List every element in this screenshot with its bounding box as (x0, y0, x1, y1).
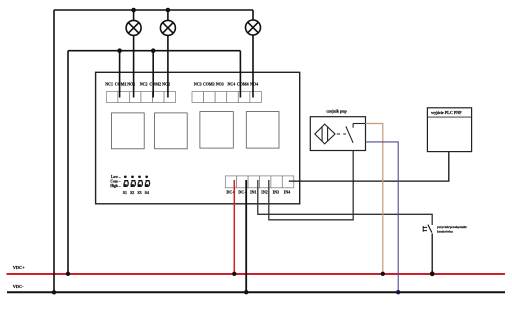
wire lamp3 upper lead (252, 10, 254, 20)
svg-text:COM4: COM4 (237, 82, 249, 87)
node junction pushbutton on VDC+ rail (430, 271, 435, 276)
svg-text:VDC-: VDC- (13, 284, 25, 289)
relay module U1 outline (96, 72, 300, 204)
sensor switch contact (346, 126, 353, 142)
wire lamp1 upper lead (133, 10, 135, 20)
wire sensor blue - to VDC- rail (366, 142, 399, 292)
svg-text:NC1: NC1 (105, 82, 113, 87)
selector switch S3 (138, 175, 143, 187)
wire lamp2 lead to NO2 (167, 35, 169, 97)
selector switch S2 (131, 175, 136, 187)
svg-text:Low –: Low – (111, 175, 121, 179)
wire COM1 drop (119, 51, 121, 98)
label S1 S2 S3 S4 (123, 190, 149, 195)
pushbutton S5 actuator (423, 226, 427, 232)
terminal strip relay outputs 1-2 (106, 92, 175, 103)
terminal labels NC1 COM1 NO1 NC2 COM2 NO2 (105, 82, 170, 87)
node junction sensor + on VDC+ rail (381, 272, 385, 276)
svg-text:NO3: NO3 (216, 82, 224, 87)
PLC box title separator (427, 116, 471, 118)
node junction COM1 tap (117, 48, 122, 53)
svg-text:COM2: COM2 (149, 82, 161, 87)
wire lamp3 lead to NO4 (252, 35, 254, 98)
node junction lamp2 on top wire (166, 8, 171, 13)
wire DC- to VDC- rail (245, 180, 247, 292)
svg-text:IN2: IN2 (261, 189, 267, 194)
svg-text:przycisk/przełącznik/: przycisk/przełącznik/ (437, 225, 467, 229)
sensor switch fixed contact stub (352, 123, 354, 127)
lamp E3 (246, 20, 261, 35)
sensor proximity diamond (315, 124, 335, 144)
node junction DC- on VDC- rail (244, 290, 248, 294)
node junction sensor - on VDC- rail (396, 290, 400, 294)
svg-text:IN4: IN4 (284, 189, 290, 194)
svg-text:COM1: COM1 (115, 82, 127, 87)
wire IN4 to PLC output (289, 152, 449, 182)
node junction lamp1 on top wire (131, 8, 136, 13)
wire top VDC- feed horizontal (54, 9, 253, 11)
wire left vertical from top wire to VDC- rail (53, 10, 55, 292)
svg-text:NC4: NC4 (228, 82, 236, 87)
svg-text:czujnik pnp: czujnik pnp (326, 108, 347, 113)
wire lamp1 lead to NO1 (133, 35, 135, 97)
selector switch S4 (145, 175, 150, 187)
sensor M1 box (310, 117, 365, 151)
svg-text:High –: High – (110, 184, 120, 188)
node junction COM feed on VDC+ rail (66, 272, 70, 276)
terminal labels NC3 COM3 NO3 NC4 COM4 NO4 (194, 82, 258, 87)
VDC+ rail (7, 273, 506, 275)
svg-text:NC3: NC3 (194, 82, 202, 87)
wire IN1 to pushbutton (258, 180, 432, 225)
pushbutton S5 contact lever (428, 225, 432, 233)
wire COM4 drop (239, 51, 241, 98)
node junction DC+ on VDC+ rail (232, 272, 236, 276)
display window 1 (112, 113, 145, 149)
svg-text:S4: S4 (145, 190, 149, 195)
wire COM feed horizontal (68, 50, 240, 52)
wire IN2 to sensor output (269, 143, 353, 220)
svg-text:S2: S2 (130, 190, 134, 195)
svg-text:krańcówka: krańcówka (437, 230, 453, 234)
svg-text:NO4: NO4 (250, 82, 258, 87)
terminal strip inputs DC+ DC- IN1 IN2 IN3 IN4 (225, 176, 293, 188)
svg-text:IN3: IN3 (273, 189, 279, 194)
svg-text:NO2: NO2 (162, 82, 170, 87)
wire pushbutton to VDC+ rail (431, 234, 433, 274)
node junction top feed on VDC- rail (52, 290, 56, 294)
display window 3 (200, 112, 233, 149)
lamp E2 (160, 20, 175, 35)
svg-text:NC2: NC2 (140, 82, 148, 87)
svg-text:COM3: COM3 (203, 82, 215, 87)
wire sensor brown + to VDC+ rail (366, 124, 383, 274)
sensor actuation dashes (337, 133, 346, 135)
node junction COM2 tap (151, 48, 156, 53)
selector switch S1 (123, 175, 128, 187)
display window 2 (155, 113, 188, 149)
wire COM2 drop (152, 51, 154, 98)
svg-text:DC-: DC- (238, 189, 246, 194)
terminal strip relay outputs 3-4 (192, 92, 261, 103)
lamp E1 (126, 20, 141, 35)
display window 4 (246, 112, 279, 149)
svg-text:S1: S1 (123, 190, 127, 195)
svg-text:VDC+: VDC+ (13, 265, 26, 270)
wire lamp2 upper lead (167, 10, 169, 20)
VDC- rail (7, 291, 505, 293)
wire left vertical from COM wire to VDC+ rail (67, 51, 69, 274)
svg-text:S3: S3 (137, 190, 141, 195)
svg-text:IN1: IN1 (250, 189, 256, 194)
wire sensor + internal (353, 123, 365, 125)
svg-text:wyjście PLC PNP: wyjście PLC PNP (431, 111, 462, 115)
PLC output box U2 (427, 108, 471, 152)
wire DC+ to VDC+ rail (red) (233, 180, 235, 274)
svg-text:Com –: Com – (110, 179, 120, 183)
